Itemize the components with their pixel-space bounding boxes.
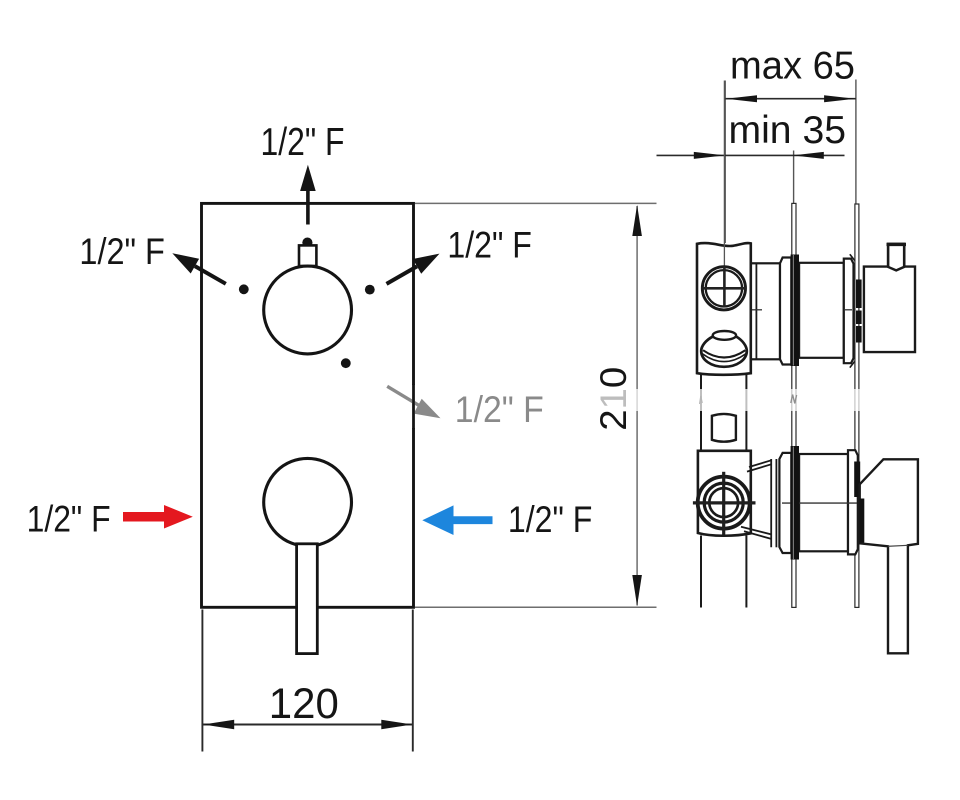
svg-text:1/2" F: 1/2" F	[79, 230, 164, 272]
svg-text:min 35: min 35	[729, 109, 847, 152]
svg-text:1/2" F: 1/2" F	[27, 498, 111, 540]
svg-text:1/2" F: 1/2" F	[261, 121, 345, 164]
svg-text:max 65: max 65	[730, 45, 855, 88]
svg-text:120: 120	[269, 681, 339, 728]
svg-text:1/2" F: 1/2" F	[508, 498, 593, 540]
svg-text:1/2" F: 1/2" F	[447, 223, 532, 265]
